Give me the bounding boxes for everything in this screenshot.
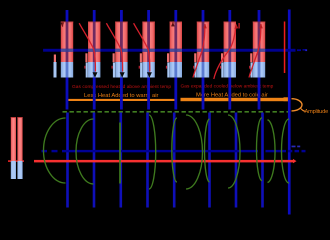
svg-text:Amplitude: Amplitude bbox=[305, 109, 329, 115]
svg-text:More Heat Added to cold air: More Heat Added to cold air bbox=[196, 92, 268, 98]
